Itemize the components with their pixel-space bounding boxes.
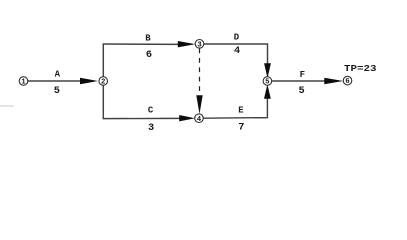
svg-text:1: 1 [21, 79, 26, 87]
svg-text:TP=23: TP=23 [344, 63, 377, 74]
value 5 (activity A) [54, 85, 60, 97]
label D [234, 33, 240, 43]
svg-text:3: 3 [148, 122, 154, 134]
arrowhead B [178, 41, 196, 47]
wire vertical through node 2 [102, 44, 104, 119]
svg-text:5: 5 [54, 85, 60, 97]
node 2 [99, 77, 108, 87]
value 5 (activity F) [299, 85, 305, 97]
wire activity C (bottom horizontal to node 4) [103, 117, 180, 119]
svg-text:4: 4 [197, 116, 202, 124]
wire activity F (node 5 to node 6) [272, 80, 326, 82]
svg-text:B: B [145, 34, 151, 44]
node 4 [195, 114, 204, 124]
value 6 (activity B) [146, 49, 152, 61]
wire dummy activity (dashed node 3 to node 4) [199, 49, 201, 96]
label TP=23 [344, 63, 377, 74]
value 3 (activity C) [148, 122, 154, 134]
arrowhead dummy [196, 95, 202, 114]
label A [55, 70, 61, 80]
wire activity A (node 1 to node 2) [28, 80, 83, 82]
arrowhead D [264, 63, 271, 78]
node 1 [19, 77, 28, 87]
svg-text:D: D [234, 33, 240, 43]
arrowhead E [264, 84, 271, 99]
arrowhead A [80, 78, 98, 85]
label C [148, 106, 154, 116]
svg-text:A: A [55, 70, 61, 80]
label F [300, 70, 305, 80]
label B [145, 34, 151, 44]
svg-text:3: 3 [197, 41, 202, 49]
svg-text:7: 7 [238, 122, 244, 134]
svg-text:2: 2 [101, 79, 105, 87]
svg-text:F: F [300, 70, 305, 80]
value 4 (activity D) [234, 45, 240, 57]
label E [238, 106, 244, 116]
wire activity E (node 4 right then up to node 5) [204, 98, 268, 119]
svg-text:4: 4 [234, 45, 240, 57]
svg-text:6: 6 [146, 49, 152, 61]
node 5 [263, 77, 272, 87]
wire activity D (node 3 right then down to node 5) [204, 44, 268, 64]
scan artifact streak bottom left [0, 105, 14, 106]
wire activity B (top horizontal to node 3) [103, 43, 179, 45]
svg-text:C: C [148, 106, 154, 116]
svg-text:5: 5 [299, 85, 305, 97]
svg-text:E: E [238, 106, 244, 116]
value 7 (activity E) [238, 122, 244, 134]
node 6 [343, 76, 352, 86]
arrowhead C [179, 115, 195, 121]
arrowhead F [324, 78, 343, 85]
svg-text:5: 5 [265, 79, 270, 87]
svg-text:6: 6 [345, 78, 350, 86]
node 3 [195, 40, 204, 50]
